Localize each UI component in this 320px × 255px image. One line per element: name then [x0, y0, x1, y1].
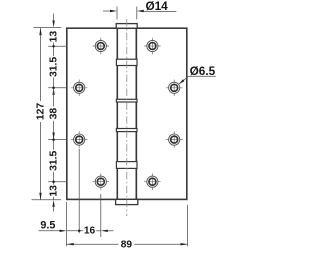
svg-text:13: 13	[49, 31, 60, 43]
extension line hole row 3	[48, 139, 67, 141]
dimension diameter 14	[103, 0, 176, 20]
svg-text:Ø6.5: Ø6.5	[190, 64, 216, 78]
svg-text:31.5: 31.5	[49, 150, 60, 170]
centerline knuckle axis	[126, 19, 128, 216]
dimension 16	[67, 226, 114, 237]
svg-text:16: 16	[84, 226, 96, 237]
chain dot row1	[52, 45, 55, 48]
knuckle joint 1	[116, 59, 137, 65]
extension line hole column inner bottom	[100, 194, 102, 237]
dimension chain 38 label with inside arrows	[49, 88, 60, 140]
hinge left leaf	[67, 28, 118, 199]
dimension diameter 6.5 with leader	[179, 64, 216, 85]
extension line right edge bottom	[187, 205, 189, 246]
knuckle body	[117, 28, 136, 199]
dimension 9.5	[39, 220, 67, 232]
hole R3	[166, 131, 183, 148]
dimension chain 31.5 lower label	[49, 140, 60, 185]
dimension chain 13 top label	[49, 14, 60, 57]
extension line hole row 1	[48, 45, 67, 47]
knuckle bottom cap	[116, 199, 138, 204]
svg-text:38: 38	[49, 108, 60, 120]
dimension chain 31.5 upper label	[49, 57, 60, 88]
extension line hole row 2	[48, 87, 67, 89]
hole R4	[144, 173, 161, 190]
dimension chain 13 bottom label	[49, 185, 60, 212]
svg-text:Ø14: Ø14	[145, 0, 168, 13]
extension line left edge bottom	[66, 202, 68, 246]
svg-text:127: 127	[36, 103, 47, 121]
extension line hole column outer bottom	[78, 149, 80, 234]
hole L2	[71, 80, 88, 97]
extension line bottom edge	[32, 199, 62, 201]
hinge right leaf	[136, 28, 187, 199]
hole L3	[71, 131, 88, 148]
knuckle joint 4	[116, 162, 137, 169]
chain dot row3	[52, 138, 55, 141]
dimension 127	[36, 28, 47, 200]
hole R1	[144, 38, 161, 55]
chain dot row4	[52, 181, 55, 184]
hole L4	[93, 173, 110, 190]
hole L1	[93, 38, 110, 55]
svg-text:89: 89	[121, 239, 133, 250]
chain dot row2	[52, 87, 55, 90]
svg-text:9.5: 9.5	[40, 220, 55, 232]
extension line hole row 4	[48, 181, 67, 183]
svg-text:13: 13	[49, 185, 60, 197]
knuckle top cap	[116, 24, 137, 29]
knuckle joint 3	[116, 129, 137, 132]
svg-text:31.5: 31.5	[49, 57, 60, 77]
knuckle joint 2	[116, 99, 137, 102]
hole R2	[166, 80, 183, 97]
extension line top edge	[34, 27, 62, 29]
dimension 89	[67, 239, 188, 250]
